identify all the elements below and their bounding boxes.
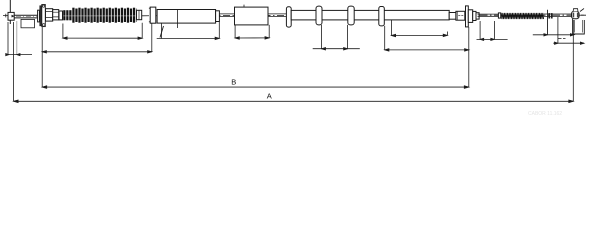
svg-text:A: A xyxy=(267,92,272,101)
svg-text:B: B xyxy=(231,77,236,86)
svg-text:CABOR 11.162: CABOR 11.162 xyxy=(528,111,562,117)
